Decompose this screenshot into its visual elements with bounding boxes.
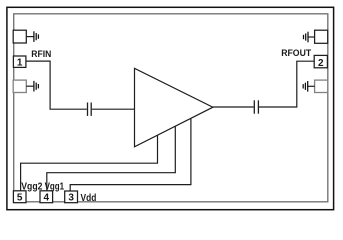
wire pin 5 to amplifier (Vgg2 bias)	[21, 135, 158, 191]
wire pad top-right to ground	[308, 36, 315, 38]
ground (top-left)	[34, 31, 39, 42]
svg-text:4: 4	[44, 192, 50, 203]
svg-text:1: 1	[17, 58, 23, 69]
ground (mid-left)	[34, 81, 39, 92]
svg-text:2: 2	[318, 58, 324, 69]
pad top-left	[13, 30, 26, 43]
wire input cap to amplifier	[92, 108, 135, 110]
pin 5 box	[13, 191, 26, 203]
pad top-right	[315, 30, 328, 43]
ground (top-right)	[304, 32, 309, 43]
svg-text:Vgg1: Vgg1	[45, 181, 65, 192]
svg-text:Vdd: Vdd	[81, 193, 97, 204]
svg-text:Vgg2: Vgg2	[21, 181, 42, 192]
wire pin1 to input cap	[26, 61, 87, 109]
pad mid-left	[13, 80, 26, 92]
inner die outline	[14, 14, 328, 202]
op-amp amplifier triangle	[135, 68, 213, 147]
pin 4 box	[40, 191, 53, 203]
ground (mid-right)	[303, 81, 308, 92]
capacitor C1 (input DC block)	[88, 103, 92, 116]
wire pin 4 to amplifier (Vgg1 bias)	[47, 126, 176, 191]
capacitor C2 (output DC block)	[254, 100, 258, 113]
pin 2 box	[314, 55, 327, 67]
wire output cap to pin 2	[259, 61, 314, 107]
wire amplifier to output cap	[213, 106, 254, 108]
pin 1 box	[13, 56, 26, 67]
svg-text:3: 3	[68, 192, 74, 203]
svg-text:5: 5	[17, 192, 23, 203]
wire pad top-left to ground	[26, 36, 34, 38]
wire pad mid-left to ground	[26, 85, 34, 87]
svg-text:RFOUT: RFOUT	[281, 48, 311, 58]
svg-text:RFIN: RFIN	[31, 49, 51, 59]
pin 3 box	[65, 191, 78, 203]
wire pad mid-right to ground	[308, 85, 315, 87]
wire pin 3 to amplifier (Vdd bias)	[70, 118, 191, 191]
pad mid-right	[315, 80, 328, 92]
